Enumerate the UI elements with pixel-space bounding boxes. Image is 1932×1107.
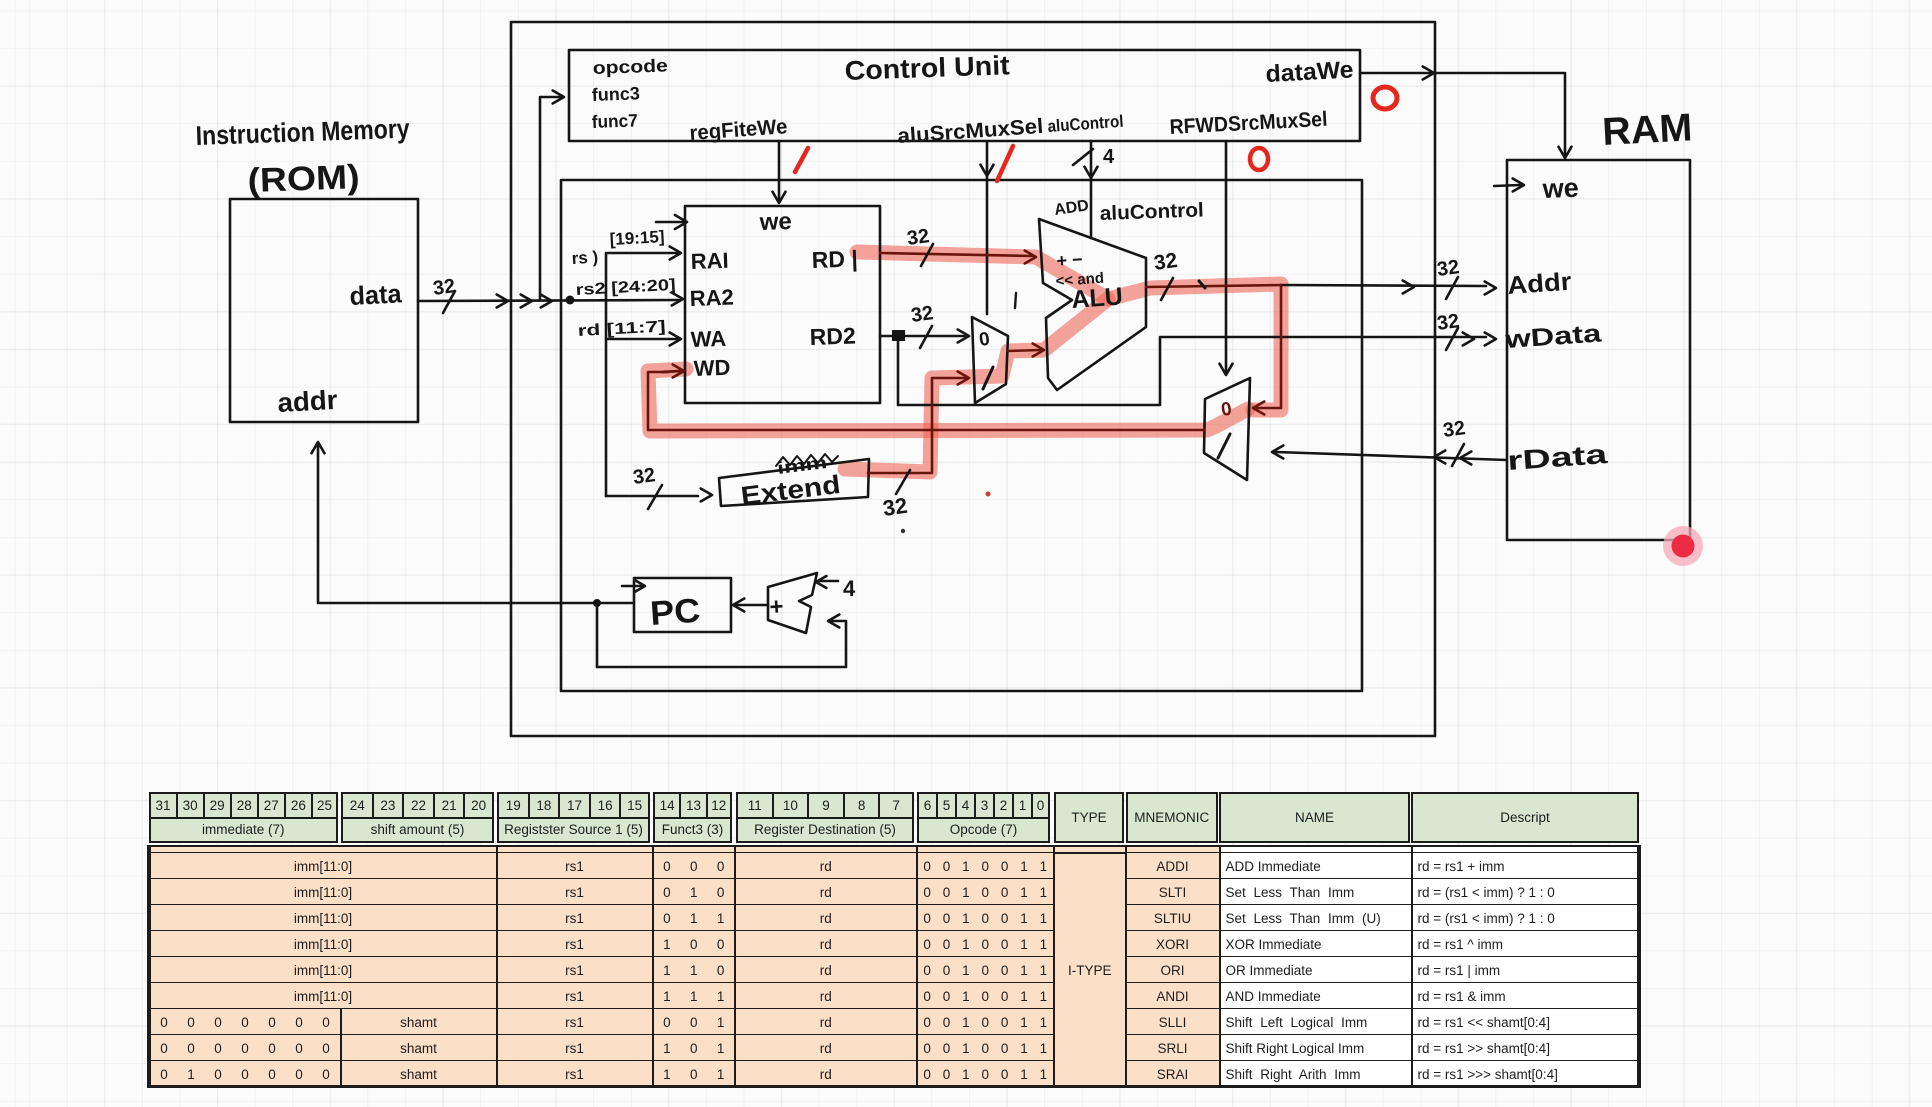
header bit numbers row — [149, 792, 178, 819]
svg-text:4: 4 — [843, 576, 856, 601]
svg-text:data: data — [349, 278, 403, 311]
wire: imm to Extend — [606, 495, 698, 498]
svg-text:rs2 [24:20]: rs2 [24:20] — [575, 277, 676, 299]
svg-text:+: + — [769, 593, 785, 621]
clock arrow into RAM we — [1494, 185, 1520, 186]
wire: 4 into adder — [820, 580, 838, 583]
wire: rs1 to RA1 — [606, 253, 677, 496]
svg-text:32: 32 — [1152, 249, 1178, 275]
svg-text:rd [11:7]: rd [11:7] — [577, 318, 666, 340]
svg-text:rData: rData — [1506, 439, 1609, 476]
wire: adder out to PC — [737, 604, 768, 607]
red mark 1 (aluSrcMuxSel) — [997, 146, 1013, 181]
highlighter: imm/Extend to ALU mux path — [845, 299, 1108, 472]
wire: aluSrcMuxSel select line — [986, 141, 989, 314]
wire: rfwd mux out to WD (highlighted) — [648, 372, 1204, 430]
svg-text:addr: addr — [277, 385, 339, 418]
label 1 (aluSrcMux) — [983, 367, 993, 389]
svg-text:RAI: RAI — [690, 248, 729, 274]
svg-text:RD2: RD2 — [809, 322, 856, 350]
highlighter: RD1 to ALU path — [857, 252, 1281, 410]
red mark 0 (RFWDSrcMuxSel) — [1250, 148, 1268, 170]
svg-text:RFWDSrcMuxSel: RFWDSrcMuxSel — [1169, 108, 1328, 139]
header TYPE/MNEMONIC/NAME/Descript — [1054, 792, 1124, 843]
clock arrow into regfile — [656, 221, 683, 224]
svg-text:ALU: ALU — [1070, 282, 1123, 314]
svg-text:32: 32 — [632, 464, 657, 489]
tiny red dot — [986, 492, 991, 497]
stray mark — [1015, 293, 1016, 308]
wire: aluControl 4-bit line — [1090, 141, 1093, 238]
box: CPU outer — [511, 22, 1435, 736]
svg-text:dataWe: dataWe — [1265, 56, 1354, 88]
junction dot on bus — [566, 296, 575, 305]
svg-text:aluControl: aluControl — [1047, 112, 1124, 136]
svg-text:Addr: Addr — [1506, 268, 1572, 300]
svg-text:Control Unit: Control Unit — [844, 50, 1010, 86]
svg-text:[19:15]: [19:15] — [609, 227, 665, 249]
svg-text:(ROM): (ROM) — [247, 158, 360, 200]
svg-text:RAM: RAM — [1601, 106, 1693, 154]
svg-text:0: 0 — [978, 329, 991, 351]
svg-text:ADD: ADD — [1053, 197, 1090, 219]
junction dot RD2 — [892, 330, 905, 341]
clock arrow into PC — [622, 585, 641, 588]
tiny black dot — [901, 529, 905, 533]
wire: RFWDSrcMuxSel select line — [1225, 141, 1228, 373]
wire: PC out to ROM addr — [318, 446, 634, 603]
svg-text:opcode: opcode — [592, 55, 668, 78]
box: Extend — [719, 459, 869, 506]
body outer border overlays — [147, 1085, 1639, 1089]
adder shape — [768, 573, 817, 633]
svg-text:4: 4 — [1103, 146, 1115, 168]
svg-text:32: 32 — [1442, 417, 1467, 442]
svg-text:we: we — [758, 208, 792, 236]
svg-text:PC: PC — [649, 592, 702, 633]
wire: ALU out to RAM Addr (highlighted part) — [1146, 285, 1281, 287]
svg-text:rs ): rs ) — [571, 248, 598, 268]
mux: RFWDSrcMux — [1204, 378, 1250, 480]
junction dot (PC wire) — [593, 599, 601, 607]
ALU shape — [1039, 219, 1146, 390]
wire: RD2 branch to RAM wData — [898, 336, 1486, 405]
svg-text:we: we — [1541, 173, 1579, 204]
box: control unit — [569, 50, 1360, 141]
svg-text:aluSrcMuxSel: aluSrcMuxSel — [897, 115, 1044, 148]
svg-text:32: 32 — [910, 302, 935, 327]
junction tick on ALU out — [1199, 281, 1205, 288]
svg-text:RA2: RA2 — [689, 284, 734, 311]
wire: rData from RAM to rfwd mux1 — [1276, 452, 1507, 460]
svg-text:WA: WA — [690, 326, 726, 352]
svg-text:0: 0 — [1220, 399, 1233, 421]
body data rows — [149, 852, 498, 880]
red mark 0 (dataWe) — [1373, 87, 1397, 109]
box: RAM — [1507, 160, 1690, 540]
wire: RD1 to ALU (highlighted) — [880, 253, 1032, 256]
wire: Extend out up to aluSrcMux (highlighted) — [868, 378, 965, 473]
arrow into WD — [662, 371, 680, 372]
wire: branch up to control unit — [540, 97, 562, 300]
wire: we from control to regfile — [778, 141, 781, 201]
wire: RD2 to mux0 — [880, 335, 965, 338]
label 1 (rfwd mux) — [1218, 434, 1230, 458]
laser pointer dot — [1663, 526, 1703, 566]
box: PC — [634, 578, 731, 632]
wire: PC feedback loop — [597, 603, 846, 667]
box: instruction memory ROM — [230, 199, 418, 422]
I-TYPE cell — [1053, 852, 1127, 1088]
body top strip — [149, 845, 498, 854]
svg-text:32: 32 — [881, 493, 909, 521]
highlighter: mux output to WD path — [648, 369, 1248, 431]
wire: aluSrcMux out to ALU (highlighted) — [1008, 350, 1040, 351]
red mark 1 (regFiteWe) — [795, 148, 808, 172]
wire: rd to WA — [606, 338, 677, 341]
svg-text:RD |: RD | — [811, 245, 858, 273]
wire: ROM data bus to regfile RA2 — [418, 300, 679, 301]
svg-text:+ −: + − — [1056, 249, 1083, 271]
wire: ALU out down to rfwd mux input0 (highlighted) — [1257, 285, 1281, 408]
svg-text:aluControl: aluControl — [1099, 199, 1204, 225]
svg-text:32: 32 — [906, 225, 931, 250]
svg-text:WD: WD — [693, 355, 731, 381]
header field names row — [149, 817, 339, 844]
svg-text:Extend: Extend — [739, 469, 842, 511]
svg-text:func7: func7 — [591, 110, 638, 132]
svg-text:Instruction Memory: Instruction Memory — [195, 114, 410, 151]
svg-text:wData: wData — [1503, 319, 1603, 354]
svg-text:func3: func3 — [591, 83, 640, 105]
box: CPU inner datapath — [561, 180, 1362, 691]
wire: dataWe to RAM — [1360, 73, 1565, 156]
mux: aluSrcMux — [972, 317, 1008, 403]
box: register file — [685, 206, 880, 403]
